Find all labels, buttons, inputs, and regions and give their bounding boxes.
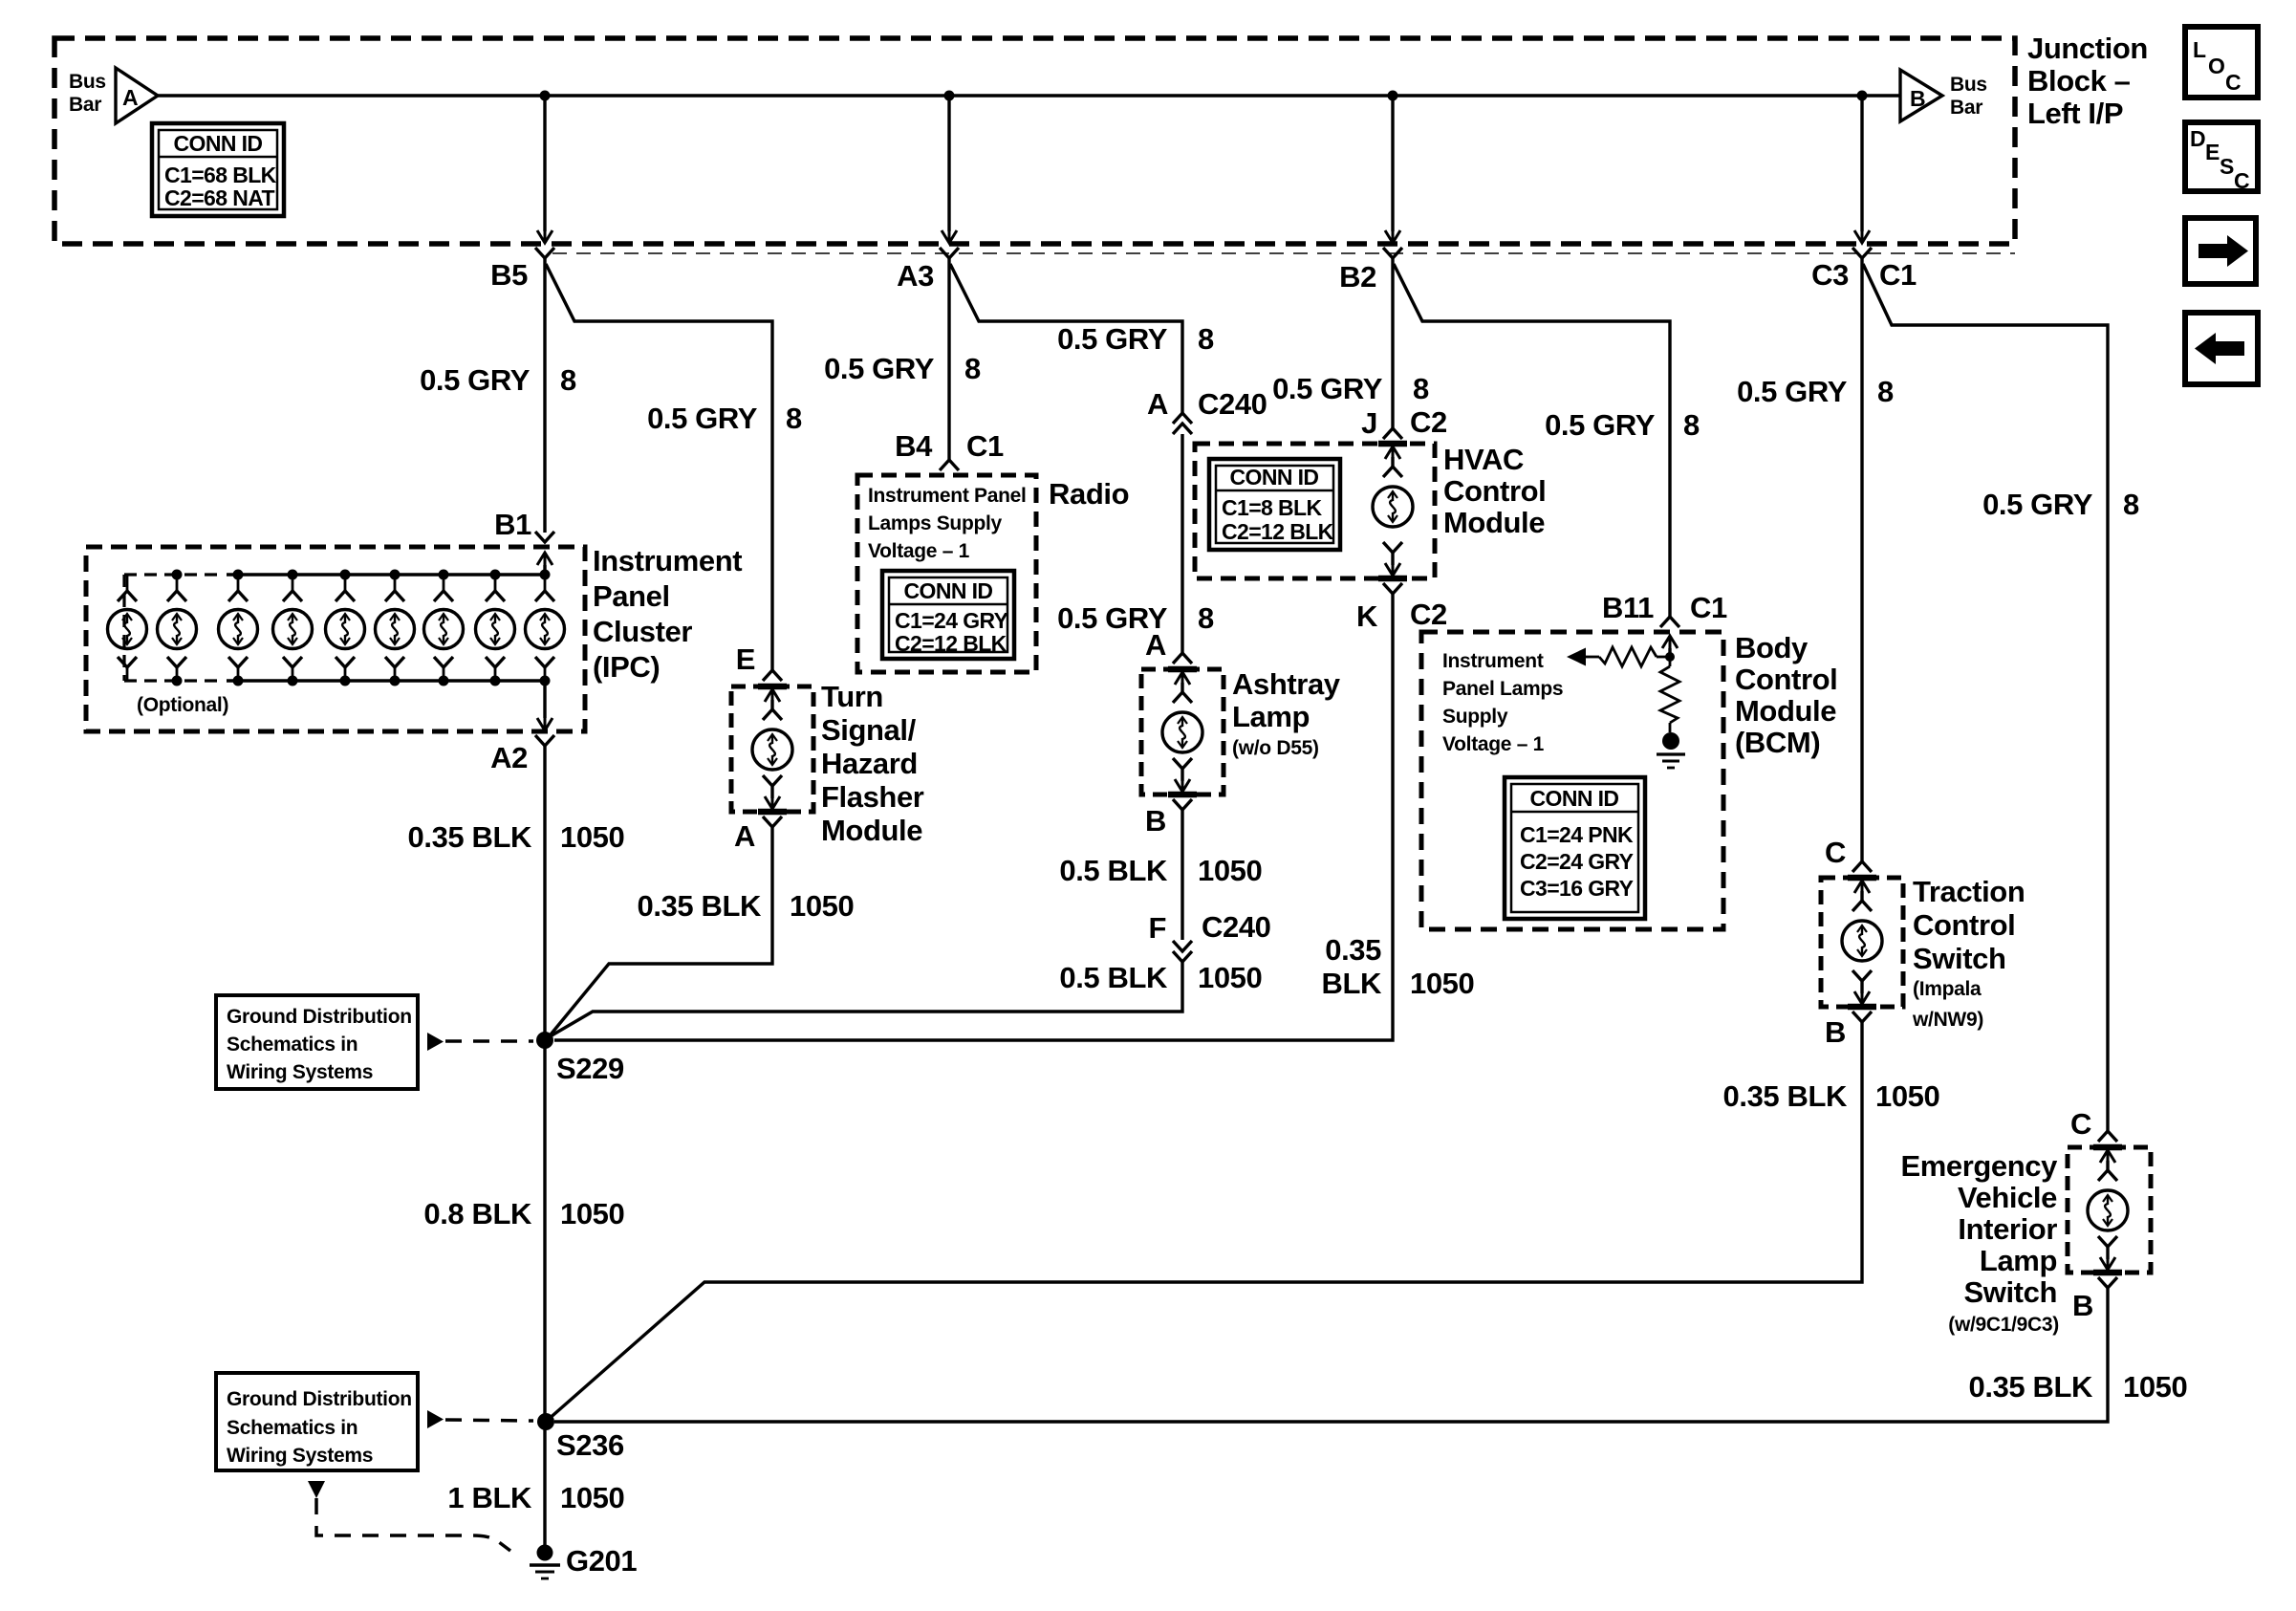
svg-text:Supply: Supply	[1442, 706, 1508, 728]
lamp IPC 2	[172, 570, 183, 580]
svg-text:E: E	[2205, 140, 2220, 164]
wire A2 to S229/S236/G201	[543, 746, 546, 1545]
svg-text:1050: 1050	[2123, 1370, 2187, 1404]
svg-text:0.5 GRY: 0.5 GRY	[647, 402, 758, 435]
svg-text:C: C	[2070, 1107, 2091, 1141]
svg-text:C1=24 GRY: C1=24 GRY	[895, 608, 1008, 633]
svg-text:0.5 BLK: 0.5 BLK	[1059, 961, 1168, 994]
IPC optional inner dashed box	[124, 573, 222, 576]
svg-text:A3: A3	[897, 259, 934, 293]
svg-text:8: 8	[1413, 372, 1429, 405]
arrow BCM dimmer (points left)	[1567, 648, 1586, 666]
svg-text:Ground Distribution: Ground Distribution	[227, 1388, 412, 1410]
wire branch A3 to ashtray lamp	[950, 264, 1182, 413]
svg-text:Module: Module	[1735, 694, 1836, 728]
svg-text:1 BLK: 1 BLK	[447, 1481, 532, 1514]
lamp IPC 8	[490, 570, 501, 580]
svg-text:CONN ID: CONN ID	[1230, 465, 1319, 490]
ground distribution reference box 2	[216, 1373, 418, 1470]
svg-text:A: A	[734, 819, 755, 853]
connector B2 at junction block	[1385, 230, 1400, 243]
wire C3 to traction control switch	[1860, 257, 1863, 861]
svg-text:B11: B11	[1602, 591, 1654, 624]
svg-text:Wiring Systems: Wiring Systems	[227, 1061, 373, 1083]
ashtray lamp box	[1141, 669, 1224, 795]
svg-text:C3=16 GRY: C3=16 GRY	[1520, 876, 1634, 901]
connector B (emergency switch)	[2098, 1277, 2117, 1288]
svg-text:C1: C1	[1879, 258, 1917, 292]
connector K/C2 (HVAC)	[1383, 583, 1402, 594]
svg-text:S236: S236	[556, 1428, 624, 1462]
svg-text:Lamps Supply: Lamps Supply	[868, 512, 1003, 534]
svg-text:C1=68 BLK: C1=68 BLK	[164, 163, 277, 187]
splice S229	[536, 1032, 553, 1049]
svg-text:8: 8	[1683, 408, 1700, 442]
wire TCS B to S236	[547, 1022, 1862, 1421]
svg-text:CONN ID: CONN ID	[904, 578, 993, 603]
svg-text:E: E	[736, 642, 755, 676]
svg-text:Ground Distribution: Ground Distribution	[227, 1006, 412, 1028]
svg-text:Panel: Panel	[593, 579, 670, 613]
svg-text:Bus: Bus	[1950, 74, 1987, 96]
connector B11/C1 (BCM)	[1660, 617, 1679, 627]
wire bus drop A3	[947, 96, 950, 231]
svg-text:0.35: 0.35	[1325, 933, 1381, 967]
svg-text:Module: Module	[1443, 506, 1545, 539]
svg-text:A: A	[1145, 628, 1166, 662]
svg-text:B: B	[1910, 86, 1925, 111]
svg-text:8: 8	[560, 363, 576, 397]
svg-text:Bus: Bus	[69, 71, 106, 93]
lamp IPC 3	[233, 570, 244, 580]
svg-text:BLK: BLK	[1321, 967, 1382, 1000]
connector B4/C1 (radio)	[940, 460, 959, 470]
instrument panel cluster box	[86, 547, 585, 731]
svg-text:1050: 1050	[560, 820, 624, 854]
thin dashed connector-face line	[552, 252, 2015, 254]
svg-text:Cluster: Cluster	[593, 615, 692, 648]
lamp IPC 9	[540, 570, 551, 580]
svg-text:C: C	[1825, 836, 1846, 869]
wire F C240 to S229	[547, 962, 1182, 1038]
connector A/C240	[1173, 413, 1192, 424]
lamp IPC 6	[390, 570, 401, 580]
svg-text:CONN ID: CONN ID	[1530, 786, 1619, 811]
svg-text:B5: B5	[490, 258, 528, 292]
svg-text:L: L	[2193, 37, 2206, 62]
svg-text:G201: G201	[566, 1544, 637, 1578]
svg-text:1050: 1050	[1198, 854, 1262, 887]
connector J/C2 (HVAC)	[1383, 428, 1402, 439]
svg-text:0.5 BLK: 0.5 BLK	[1059, 854, 1168, 887]
svg-text:0.8 BLK: 0.8 BLK	[423, 1197, 532, 1230]
body control module box	[1421, 632, 1723, 929]
svg-text:Instrument: Instrument	[1442, 650, 1544, 672]
svg-text:Block –: Block –	[2027, 64, 2131, 98]
svg-text:C1=24 PNK: C1=24 PNK	[1520, 822, 1634, 847]
wire branch B2 to BCM	[1394, 264, 1670, 617]
svg-text:C2: C2	[1410, 598, 1447, 631]
svg-text:Hazard: Hazard	[821, 747, 918, 780]
svg-text:0.5 GRY: 0.5 GRY	[1737, 375, 1848, 408]
svg-text:C2=24 GRY: C2=24 GRY	[1520, 849, 1634, 874]
svg-text:CONN ID: CONN ID	[174, 131, 263, 156]
svg-text:1050: 1050	[1198, 961, 1262, 994]
emergency vehicle interior lamp switch box	[2068, 1147, 2151, 1273]
node bus-A3	[944, 91, 955, 101]
svg-text:1050: 1050	[1410, 967, 1474, 1000]
svg-text:B: B	[1825, 1015, 1846, 1049]
turn signal / hazard flasher module box	[731, 686, 813, 812]
svg-text:Traction: Traction	[1913, 875, 2025, 908]
wire bus drop B5	[543, 96, 546, 231]
wire B2 to HVAC J	[1391, 257, 1394, 428]
connector F/C240	[1173, 941, 1192, 951]
svg-text:A2: A2	[490, 741, 528, 774]
resistor BCM vertical	[1669, 657, 1672, 666]
svg-text:0.5 GRY: 0.5 GRY	[1545, 408, 1656, 442]
svg-text:Bar: Bar	[1950, 97, 1982, 119]
svg-text:Control: Control	[1443, 474, 1546, 508]
svg-text:HVAC: HVAC	[1443, 443, 1524, 476]
CONN ID table (junction block C1=68 BLK C2=68 NAT)	[152, 123, 284, 216]
svg-text:0.35 BLK: 0.35 BLK	[408, 820, 532, 854]
svg-text:0.5 GRY: 0.5 GRY	[1057, 322, 1168, 356]
icon box DESC	[2185, 122, 2258, 191]
svg-text:8: 8	[1198, 322, 1214, 356]
svg-text:Turn: Turn	[821, 680, 883, 713]
node bus-B2	[1388, 91, 1398, 101]
svg-text:B: B	[2072, 1289, 2093, 1322]
svg-text:Left I/P: Left I/P	[2027, 97, 2123, 130]
svg-text:8: 8	[2123, 488, 2139, 521]
ground distribution reference box 1	[216, 995, 418, 1089]
wire HVAC K to S229	[554, 594, 1393, 1040]
radio box	[857, 475, 1036, 672]
connector C3/C1 at junction block	[1854, 230, 1870, 243]
svg-text:Control: Control	[1735, 663, 1837, 696]
bus bar A triangle	[116, 68, 158, 123]
svg-text:8: 8	[964, 352, 981, 385]
lamp IPC 5	[340, 570, 351, 580]
lamp HVAC module	[1378, 441, 1407, 447]
wire bus drop C3	[1860, 96, 1863, 231]
node bus-C3	[1857, 91, 1868, 101]
connector B5 at junction block	[537, 230, 552, 243]
svg-text:C: C	[2234, 168, 2249, 193]
wire ashtray B to F C240	[1180, 810, 1183, 940]
svg-text:C2=12 BLK: C2=12 BLK	[1222, 519, 1334, 544]
lamp emergency switch	[2093, 1144, 2122, 1151]
icon box left arrow	[2185, 313, 2258, 384]
svg-text:1050: 1050	[1875, 1079, 1939, 1113]
svg-text:B1: B1	[494, 508, 531, 541]
svg-text:O: O	[2208, 54, 2224, 78]
svg-text:1050: 1050	[560, 1481, 624, 1514]
IPC bottom bus rail	[227, 679, 545, 682]
svg-text:K: K	[1356, 599, 1378, 633]
svg-text:C240: C240	[1198, 387, 1267, 421]
svg-text:(IPC): (IPC)	[593, 650, 660, 684]
IPC top bus rail	[227, 573, 545, 576]
junction block box (Junction Block - Left I/P)	[54, 38, 2015, 244]
svg-text:w/NW9): w/NW9)	[1912, 1009, 1983, 1031]
svg-text:0.35 BLK: 0.35 BLK	[1723, 1079, 1848, 1113]
svg-text:(Impala: (Impala	[1913, 978, 1982, 1000]
svg-text:0.5 GRY: 0.5 GRY	[1272, 372, 1383, 405]
ground BCM internal	[1662, 732, 1679, 750]
svg-text:Control: Control	[1913, 908, 2015, 942]
svg-text:Switch: Switch	[1913, 942, 2006, 975]
wire A3 to radio B4	[947, 257, 950, 460]
svg-text:C1: C1	[1690, 591, 1727, 624]
svg-text:Vehicle: Vehicle	[1958, 1181, 2057, 1214]
svg-text:0.35 BLK: 0.35 BLK	[638, 889, 762, 923]
svg-text:Lamp: Lamp	[1980, 1244, 2057, 1277]
connector A3 at junction block	[942, 230, 957, 243]
arrow to G201 (down triangle)	[308, 1481, 325, 1498]
svg-text:C240: C240	[1202, 910, 1271, 944]
svg-text:Body: Body	[1735, 631, 1809, 664]
svg-text:C3: C3	[1811, 258, 1849, 292]
svg-text:Instrument Panel: Instrument Panel	[868, 485, 1027, 507]
svg-text:1050: 1050	[560, 1197, 624, 1230]
CONN ID table (HVAC C1=8 BLK C2=12 BLK)	[1209, 459, 1340, 550]
wire C240 to ashtray lamp	[1180, 434, 1183, 653]
svg-text:Schematics in: Schematics in	[227, 1417, 357, 1439]
bus bar B triangle	[1900, 70, 1942, 121]
CONN ID table (radio C1=24 GRY C2=12 BLK)	[882, 571, 1014, 659]
BCM pin arrow	[1662, 636, 1678, 648]
node BCM internal	[1665, 652, 1675, 662]
icon box LOC	[2185, 27, 2258, 98]
arrow to S229	[427, 1033, 444, 1051]
traction control switch box	[1821, 878, 1903, 1007]
wire B5 to IPC B1	[543, 257, 546, 533]
lamp traction control switch	[1848, 875, 1876, 882]
svg-text:C2=68 NAT: C2=68 NAT	[164, 185, 275, 210]
connector B (TCS)	[1852, 1012, 1872, 1022]
svg-text:0.5 GRY: 0.5 GRY	[824, 352, 935, 385]
svg-text:B4: B4	[895, 429, 933, 463]
svg-text:Switch: Switch	[1963, 1275, 2057, 1309]
svg-text:Ashtray: Ashtray	[1232, 667, 1341, 701]
svg-text:8: 8	[786, 402, 802, 435]
resistor BCM horizontal	[1657, 656, 1670, 659]
svg-text:Voltage – 1: Voltage – 1	[868, 540, 970, 562]
svg-text:Signal/: Signal/	[821, 713, 917, 747]
icon box right arrow	[2185, 218, 2256, 284]
svg-text:0.35 BLK: 0.35 BLK	[1969, 1370, 2093, 1404]
svg-text:C1: C1	[966, 429, 1004, 463]
svg-text:0.5 GRY: 0.5 GRY	[420, 363, 531, 397]
CONN ID table (BCM C1=24 PNK C2=24 GRY C3=16 GRY)	[1505, 777, 1645, 919]
wire emergency B to S236	[554, 1288, 2108, 1422]
connector B (ashtray)	[1173, 799, 1192, 810]
svg-text:Module: Module	[821, 814, 922, 847]
lamp turn signal module	[758, 684, 787, 690]
svg-text:Lamp: Lamp	[1232, 700, 1310, 733]
ground G201	[537, 1545, 553, 1561]
svg-text:(BCM): (BCM)	[1735, 726, 1820, 759]
lamp ashtray	[1168, 666, 1197, 673]
wire bus bar horizontal	[158, 94, 1900, 98]
svg-text:B: B	[1145, 804, 1166, 838]
svg-text:Interior: Interior	[1958, 1212, 2057, 1246]
svg-text:Voltage – 1: Voltage – 1	[1442, 733, 1545, 755]
svg-text:A: A	[122, 85, 138, 110]
lamp IPC 7	[439, 570, 449, 580]
svg-text:Flasher: Flasher	[821, 780, 924, 814]
splice S236	[537, 1413, 554, 1430]
lamp IPC 4	[288, 570, 298, 580]
HVAC control module box	[1195, 444, 1435, 578]
svg-text:C: C	[2225, 70, 2241, 95]
svg-text:1050: 1050	[790, 889, 854, 923]
wire flasher A to S229	[547, 827, 772, 1039]
wire branch C1 to emergency lamp switch	[1863, 264, 2108, 1131]
svg-text:Panel Lamps: Panel Lamps	[1442, 678, 1563, 700]
svg-text:Emergency: Emergency	[1900, 1149, 2058, 1183]
svg-text:C2=12 BLK: C2=12 BLK	[895, 631, 1007, 656]
svg-text:Wiring Systems: Wiring Systems	[227, 1445, 373, 1467]
svg-text:(w/o D55): (w/o D55)	[1232, 737, 1319, 759]
lamp IPC 1	[126, 575, 129, 593]
svg-text:Schematics in: Schematics in	[227, 1034, 357, 1056]
arrow to S236	[427, 1410, 444, 1428]
svg-text:A: A	[1147, 387, 1168, 421]
svg-text:F: F	[1148, 911, 1166, 945]
svg-text:D: D	[2190, 126, 2205, 151]
svg-text:8: 8	[1877, 375, 1894, 408]
wire branch B5 to turn signal module	[546, 264, 772, 670]
svg-text:(Optional): (Optional)	[137, 694, 228, 716]
svg-text:(w/9C1/9C3): (w/9C1/9C3)	[1948, 1314, 2059, 1336]
svg-text:C1=8 BLK: C1=8 BLK	[1222, 495, 1322, 520]
svg-text:Bar: Bar	[69, 94, 101, 116]
node bus-B5	[540, 91, 551, 101]
svg-text:Radio: Radio	[1049, 477, 1129, 511]
svg-text:S: S	[2220, 154, 2234, 179]
svg-text:J: J	[1361, 406, 1377, 440]
svg-text:B2: B2	[1339, 260, 1376, 294]
svg-text:0.5 GRY: 0.5 GRY	[1982, 488, 2093, 521]
connector A (flasher)	[763, 816, 782, 827]
svg-text:C2: C2	[1410, 405, 1447, 439]
svg-text:Junction: Junction	[2027, 32, 2148, 65]
wire bus drop B2	[1391, 96, 1394, 231]
connector A2 (IPC)	[543, 681, 546, 718]
svg-text:S229: S229	[556, 1052, 624, 1085]
svg-text:Instrument: Instrument	[593, 544, 742, 577]
svg-text:8: 8	[1198, 601, 1214, 635]
